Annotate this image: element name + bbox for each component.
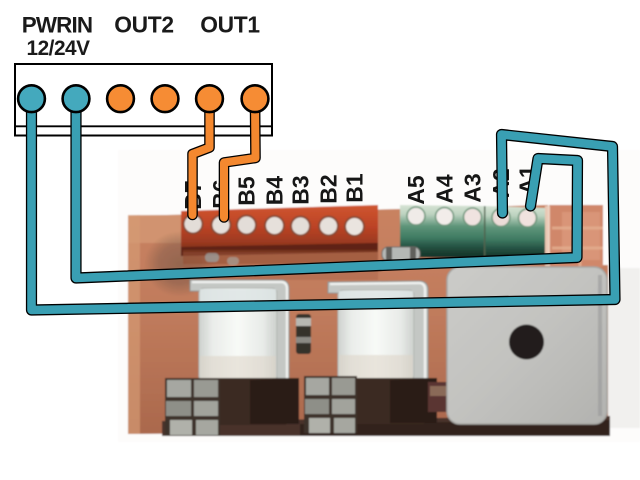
svg-text:PWRIN: PWRIN [22,13,92,38]
svg-text:12/24V: 12/24V [27,37,91,60]
screw B4 [265,216,284,235]
pin 5 OUT1 [196,85,223,112]
pin 3 OUT2 [107,85,134,112]
PCB board [128,205,608,434]
screw A3 [464,208,482,226]
pin 2 PWRIN [63,85,90,112]
svg-text:B2: B2 [316,174,342,203]
bridge rectifier metal square [447,267,607,424]
screw B1 [345,217,364,236]
terminal block A5-A3 body [400,205,484,258]
screw B3 [291,217,310,236]
terminal block B dark base [181,243,378,256]
relay K1 clips [165,378,220,436]
svg-text:B3: B3 [288,175,314,204]
photo background [118,150,640,442]
pin 4 OUT2 [152,85,179,112]
mounting hole [509,325,544,360]
relay K1 metal frame top bar [190,280,289,390]
svg-text:A5: A5 [403,175,429,205]
PCB bottom solder strip [162,416,610,436]
wire PWRIN+ teal to A1 [76,100,578,278]
relay K1 base [203,378,299,425]
svg-text:B5: B5 [234,176,260,206]
PCB bottom darker strip [300,420,610,436]
screw B2 [319,217,338,236]
svg-text:B4: B4 [262,176,288,206]
svg-text:B1: B1 [342,173,368,203]
connector lip line [14,125,272,127]
relay K2 metal frame top bar [328,281,428,407]
connector outline [15,64,272,136]
component block (blurred, right of A block) [549,205,603,267]
pin 6 OUT1 [242,85,269,112]
svg-text:A4: A4 [432,174,458,204]
svg-text:OUT2: OUT2 [114,12,174,38]
svg-text:A3: A3 [460,173,486,202]
screw B6 [212,216,231,235]
relay K1 coil body [199,288,277,381]
relay K2 base [343,378,437,424]
diode D1 (dark cylinder between relays) [296,314,311,354]
relay K2 clips [304,376,357,433]
relay K2 right clip [428,382,452,412]
screw B5 [237,216,256,235]
pin 1 PWRIN [18,85,45,112]
PCB shadow blob [144,231,216,297]
small silver beads on PCB [205,253,219,262]
wire OUT1- orange to B6 [224,100,256,218]
wire PWRIN- teal to A2 [32,100,616,310]
screw A4 [436,208,454,226]
terminal block A2-A1 body [486,206,546,260]
svg-text:OUT1: OUT1 [200,12,260,38]
PCB left light edge [128,215,140,434]
screw B7 [184,215,203,234]
terminal block B body [181,205,378,254]
wire OUT1+ orange to B7 [193,100,210,215]
screw A1 [519,209,537,227]
screw A2 [492,209,510,227]
silver cylinder component above A block gap [382,247,420,261]
shadow under B block [183,250,378,264]
relay K2 coil body [338,290,414,380]
screw A5 [407,207,425,225]
